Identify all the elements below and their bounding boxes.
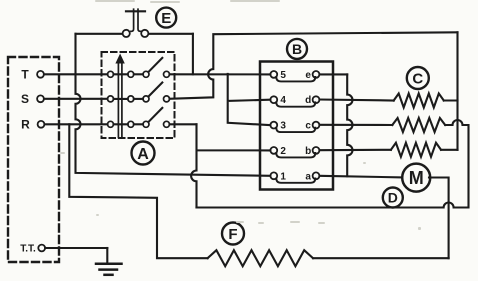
svg-text:R: R — [21, 118, 30, 132]
svg-text:E: E — [161, 10, 171, 27]
svg-text:F: F — [228, 226, 237, 243]
svg-text:T: T — [21, 68, 29, 82]
svg-text:B: B — [292, 41, 302, 57]
svg-text:b: b — [305, 146, 311, 157]
svg-text:e: e — [305, 70, 311, 81]
svg-text:1: 1 — [280, 171, 286, 182]
svg-text:4: 4 — [280, 95, 286, 106]
svg-text:C: C — [412, 70, 423, 87]
svg-text:S: S — [21, 92, 29, 106]
svg-text:2: 2 — [280, 146, 286, 157]
svg-text:c: c — [305, 121, 311, 132]
svg-text:A: A — [137, 146, 149, 163]
svg-text:5: 5 — [280, 70, 286, 81]
svg-text:M: M — [409, 168, 424, 188]
svg-text:d: d — [305, 95, 311, 106]
svg-text:D: D — [388, 190, 398, 206]
svg-text:T.T.: T.T. — [20, 244, 36, 255]
svg-text:a: a — [305, 171, 311, 182]
svg-text:3: 3 — [280, 121, 286, 132]
